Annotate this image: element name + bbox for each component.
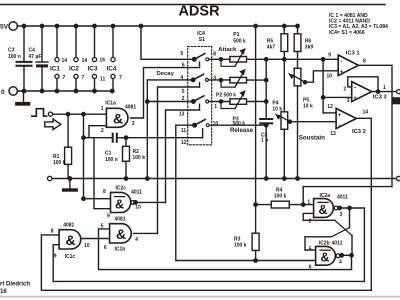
svg-text:IC1b: IC1b — [115, 246, 126, 252]
NAND gate IC2c (inverter) — [111, 192, 135, 212]
wire IC2c output to control 13 riser — [134, 201, 166, 204]
svg-text:IC3 3: IC3 3 — [373, 94, 388, 100]
AND gate IC1b — [110, 224, 132, 243]
node rail-SW1 — [139, 24, 142, 27]
svg-text:8: 8 — [213, 52, 216, 58]
potentiometer P3 500k — [221, 90, 247, 127]
svg-text:1: 1 — [101, 106, 104, 112]
svg-text:100 k: 100 k — [234, 243, 247, 249]
svg-text:IC1a: IC1a — [105, 101, 116, 107]
AND gate IC1a — [106, 108, 128, 127]
resistor R1 — [53, 114, 72, 178]
op-amp IC3 2 — [336, 108, 356, 129]
svg-text:ADSR: ADSR — [178, 4, 220, 20]
label Release — [230, 127, 254, 134]
svg-text:7: 7 — [63, 75, 66, 81]
wire P3 right to C2 bus — [247, 100, 268, 103]
op-amp IC3 3 — [352, 82, 372, 102]
node gnd-IC4 — [111, 89, 114, 92]
node bus-R5 — [283, 58, 286, 61]
svg-text:3: 3 — [132, 121, 135, 127]
wire IC2a output to IC1c.9 wrap — [53, 206, 364, 281]
label IC3 1 — [327, 50, 367, 79]
node rail-C3 — [22, 24, 25, 27]
AND gate IC1c — [59, 230, 81, 249]
resistor R4 — [256, 188, 314, 209]
svg-text:16: 16 — [100, 58, 106, 64]
svg-text:&: & — [320, 251, 329, 265]
svg-text:7: 7 — [82, 75, 85, 81]
node gnd-C4 — [40, 89, 43, 92]
label switch2 pins — [180, 75, 216, 95]
node rail-R5 — [283, 24, 286, 27]
svg-text:&: & — [113, 110, 123, 126]
wire C1 left / trigger source — [82, 136, 113, 139]
svg-text:12: 12 — [327, 104, 333, 110]
svg-text:5V: 5V — [0, 24, 9, 31]
label IC1c — [51, 223, 90, 260]
wire +15V drop to switch row1 — [141, 26, 194, 59]
svg-text:13: 13 — [330, 131, 336, 137]
wire IC3 2 output pin 14 wrap to IC1c.8 — [41, 118, 371, 290]
node rail-IC2 — [74, 24, 77, 27]
svg-text:IC1c: IC1c — [65, 254, 76, 260]
wire C2 bus — [265, 59, 268, 180]
svg-text:6: 6 — [309, 265, 312, 271]
node input-R1 — [66, 113, 69, 116]
terminal envelope output — [397, 90, 400, 94]
label IC2b — [309, 241, 343, 271]
svg-text:5: 5 — [309, 247, 312, 253]
bottom gray separator — [0, 296, 400, 298]
node rail-R6 — [296, 24, 299, 27]
svg-text:&: & — [318, 203, 327, 217]
ground symbol (bus) — [62, 179, 78, 192]
svg-text:10: 10 — [84, 243, 90, 249]
terminal ground (right) — [397, 176, 400, 180]
wire ground bus — [53, 178, 397, 180]
svg-text:100 k: 100 k — [133, 155, 146, 161]
svg-text:47 µF: 47 µF — [29, 54, 42, 60]
terminal ground (left) — [48, 176, 52, 180]
svg-text:8: 8 — [363, 58, 366, 64]
resistor R2 — [123, 138, 146, 179]
svg-text:-: - — [338, 122, 340, 129]
wire switch row4 input — [176, 124, 195, 126]
svg-text:4011: 4011 — [131, 190, 142, 196]
capacitor C1 — [105, 134, 118, 163]
svg-text:IC3 2: IC3 2 — [352, 129, 366, 135]
svg-text:9: 9 — [54, 254, 57, 260]
svg-text:IC3 1: IC3 1 — [346, 50, 361, 56]
capacitor C2 — [260, 119, 272, 143]
wire IC1b output to control 5 riser — [134, 232, 158, 234]
svg-text:1: 1 — [307, 200, 310, 206]
op-amp IC3 1 — [338, 55, 358, 76]
wire IC3 1 output pin 8 feedback to flip-flop — [302, 65, 393, 206]
svg-text:Decay: Decay — [157, 71, 175, 77]
svg-text:0: 0 — [1, 89, 5, 96]
svg-text:9: 9 — [180, 51, 183, 57]
wire switch row2 input — [147, 79, 193, 81]
switch S1d (release, pins 11/10) — [193, 120, 209, 127]
svg-text:IC4: IC4 — [107, 66, 117, 73]
svg-text:P1: P1 — [233, 32, 239, 38]
svg-text:&: & — [65, 232, 75, 248]
arrow symbol (trigger direction) — [45, 119, 61, 130]
svg-text:3: 3 — [347, 98, 350, 104]
node gndbus-R1 — [68, 177, 71, 180]
svg-text:IC2a: IC2a — [320, 193, 331, 199]
svg-text:4: 4 — [339, 260, 342, 266]
potentiometer P1 500k — [219, 32, 246, 66]
svg-text:11: 11 — [181, 128, 187, 134]
svg-text:IC2c: IC2c — [116, 186, 127, 192]
svg-text:Release: Release — [230, 127, 254, 134]
wire IC1b pin5 from flip-flop wrap — [99, 229, 352, 270]
svg-text:+: + — [340, 70, 344, 76]
node gndbus-R2 — [124, 177, 127, 180]
wire gate-net down to IC2c.8 — [82, 114, 111, 200]
capacitor C4 (electrolytic) — [29, 26, 49, 91]
frame top border — [0, 4, 385, 6]
wire attack bus branch to IC3 inputs — [321, 59, 351, 113]
svg-text:500 k: 500 k — [233, 38, 246, 44]
svg-text:1: 1 — [383, 85, 386, 91]
svg-text:6: 6 — [182, 62, 185, 68]
svg-text:100 n: 100 n — [8, 54, 21, 60]
svg-text:100 k: 100 k — [274, 193, 287, 199]
svg-text:&: & — [115, 197, 124, 211]
wire ground riser for decay/P2 switch inputs — [146, 80, 149, 180]
svg-text:3: 3 — [340, 212, 343, 218]
switch S1b (decay, pins 4/3) — [191, 74, 208, 82]
wire control 5 (from IC1b output) — [158, 83, 200, 234]
svg-text:C1: C1 — [105, 151, 112, 157]
resistor R5 — [267, 26, 288, 59]
switch S1a (attack, pins 9/8) — [193, 54, 209, 62]
wire switch1 out to P1 — [209, 58, 230, 60]
label IC1b — [101, 217, 138, 253]
wire trigger net to IC2b pin6 — [176, 260, 315, 262]
wire switch row3 input — [147, 101, 193, 103]
svg-text:IC2b: IC2b — [319, 241, 330, 247]
svg-text:1: 1 — [214, 104, 217, 110]
svg-text:2: 2 — [101, 128, 104, 134]
wire trigger net down to IC2c.9 — [94, 138, 111, 209]
svg-text:14: 14 — [82, 58, 88, 64]
terminal +15V — [0, 22, 17, 31]
IC1 power pins — [50, 26, 67, 91]
svg-text:9: 9 — [328, 53, 331, 59]
svg-text:2: 2 — [182, 96, 185, 102]
label IC2a — [307, 193, 348, 225]
svg-text:4: 4 — [180, 75, 183, 81]
NAND gate IC2a — [314, 199, 338, 218]
svg-text:4k7: 4k7 — [267, 45, 276, 51]
wire P5 wiper to IC3 1 non-inverting input — [305, 71, 338, 82]
svg-text:12: 12 — [181, 140, 187, 146]
svg-text:10 k: 10 k — [272, 106, 282, 112]
svg-text:&: & — [116, 226, 126, 242]
svg-text:1 µ: 1 µ — [261, 137, 268, 143]
label IC1a — [101, 101, 137, 134]
svg-text:6: 6 — [104, 245, 107, 251]
wire IC2a pin2 from IC2b output (cross coupling) — [303, 213, 352, 255]
node input-branch — [82, 113, 85, 116]
node gnd-C3 — [22, 89, 25, 92]
label Decay — [157, 71, 175, 77]
node rail-C4 — [40, 24, 43, 27]
wire IC2b pin5 from IC2a output (cross coupling) — [305, 208, 350, 250]
title ADSR — [178, 4, 220, 20]
node C1-R2 — [124, 136, 127, 139]
gate input pulse symbol — [32, 109, 47, 117]
svg-text:10: 10 — [213, 121, 219, 127]
svg-text:5: 5 — [182, 89, 185, 95]
terminal gate input — [48, 112, 52, 116]
label switch4 pins — [181, 121, 218, 146]
IC4 power pins — [107, 26, 123, 91]
wire ground rail — [17, 90, 112, 92]
author credit text — [0, 282, 30, 295]
node rail-R3 — [254, 24, 257, 27]
IC3 power pins — [88, 26, 106, 91]
wire IC3 3 feedback loop — [348, 77, 378, 92]
svg-text:3k9: 3k9 — [305, 45, 314, 51]
wire control 13 (from IC2c output) — [166, 104, 200, 202]
svg-text:9: 9 — [107, 214, 110, 220]
label IC4 / S1 — [197, 31, 205, 43]
svg-text:+: + — [338, 113, 342, 119]
node rail-IC1 — [55, 24, 58, 27]
svg-text:10 k: 10 k — [303, 104, 313, 110]
svg-text:IC3: IC3 — [88, 66, 98, 73]
svg-text:C3: C3 — [8, 48, 15, 54]
node bus-opamp branch — [321, 58, 324, 61]
svg-text:13: 13 — [179, 112, 185, 118]
wire P2 right to C2 bus — [247, 78, 268, 81]
svg-text:7: 7 — [119, 75, 122, 81]
output marker black square — [392, 97, 400, 104]
svg-text:4011: 4011 — [337, 194, 348, 200]
svg-text:Soustain: Soustain — [299, 135, 325, 142]
capacitor C3 — [8, 26, 32, 91]
svg-text:4011: 4011 — [332, 241, 343, 247]
svg-text:4081: 4081 — [63, 223, 74, 229]
node rail-IC3 — [93, 24, 96, 27]
wire switch3 out to P3 — [209, 100, 230, 103]
svg-text:100 n: 100 n — [105, 157, 118, 163]
svg-text:IC4= S1 = 4066: IC4= S1 = 4066 — [329, 30, 365, 36]
node gnd-IC3 — [93, 89, 96, 92]
svg-text:P2 500 k: P2 500 k — [216, 92, 236, 98]
wire switch4 out to C2 bus — [210, 124, 268, 127]
wire +15V to R3 riser — [254, 26, 257, 233]
label IC3 3 — [343, 85, 387, 104]
wire control 12 (trigger net stub) — [202, 129, 204, 138]
wire P1 right to attack bus — [247, 58, 338, 60]
svg-text:4081: 4081 — [125, 104, 136, 110]
svg-text:14: 14 — [62, 58, 68, 64]
potentiometer P2 500k — [216, 69, 247, 99]
IC legend text — [329, 13, 388, 36]
wire C1 right to trigger bus — [117, 137, 202, 139]
svg-text:11: 11 — [100, 77, 106, 83]
node gnd-IC1 — [55, 89, 58, 92]
resistor R3 — [234, 233, 259, 262]
wire P4 wiper to IC3 2 inverting input — [290, 121, 336, 123]
node bus-C2 — [265, 58, 268, 61]
resistor R6 — [294, 26, 313, 68]
svg-text:S1: S1 — [199, 37, 205, 43]
wire IC1c output to IC1b pin6 — [81, 238, 110, 240]
svg-text:IC1: IC1 — [50, 66, 60, 73]
svg-text:4: 4 — [135, 237, 138, 243]
switch S1c (pins 2/1) — [192, 96, 209, 103]
svg-text:-: - — [354, 84, 356, 91]
svg-text:16: 16 — [0, 289, 7, 295]
svg-text:Attack: Attack — [218, 47, 237, 53]
node rail-IC4 — [111, 24, 114, 27]
potentiometer P5 10k — [288, 68, 313, 180]
NAND gate IC2b — [316, 246, 340, 265]
wire switch row4 input riser (to IC2b.6 net) — [175, 125, 177, 260]
label Attack — [218, 47, 237, 53]
svg-text:C4: C4 — [29, 48, 36, 54]
potentiometer P4 10k — [272, 100, 291, 180]
ground symbol (rail) — [15, 91, 30, 106]
svg-text:100 k: 100 k — [53, 160, 66, 166]
wire +15V rail — [17, 25, 297, 27]
wire R5 node down to P4 — [283, 59, 285, 112]
analog switch block IC4/S1 dashed box — [188, 47, 212, 145]
svg-text:4081: 4081 — [114, 217, 125, 223]
svg-text:2: 2 — [309, 219, 312, 225]
svg-text:10: 10 — [327, 74, 333, 80]
svg-text:+: + — [353, 96, 357, 102]
wire gate input to IC1a pin1 — [53, 113, 106, 115]
svg-text:2: 2 — [343, 87, 346, 93]
node gnd-IC2 — [74, 89, 77, 92]
wire IC2b output node — [340, 254, 353, 270]
svg-text:10: 10 — [135, 205, 141, 211]
svg-text:8: 8 — [103, 189, 106, 195]
svg-text:-: - — [341, 58, 343, 65]
label IC2c — [103, 186, 142, 220]
svg-text:rt Diedrich: rt Diedrich — [0, 282, 30, 288]
terminal 0V — [1, 87, 17, 96]
label IC3 2 — [327, 104, 368, 137]
label Soustain — [299, 135, 325, 142]
wire IC3 3 output to terminal — [372, 90, 396, 93]
wire IC1a pin2 tie — [89, 126, 106, 138]
svg-text:IC2: IC2 — [69, 66, 79, 73]
label switch3 pins — [179, 96, 217, 118]
svg-text:14: 14 — [363, 109, 369, 115]
label switch1 pins — [180, 51, 216, 68]
IC2 power pins — [69, 26, 87, 91]
svg-text:8: 8 — [51, 229, 54, 235]
wire IC1a output up to switch control 6 — [131, 62, 200, 118]
wire switch2 out to P2 — [209, 79, 231, 82]
